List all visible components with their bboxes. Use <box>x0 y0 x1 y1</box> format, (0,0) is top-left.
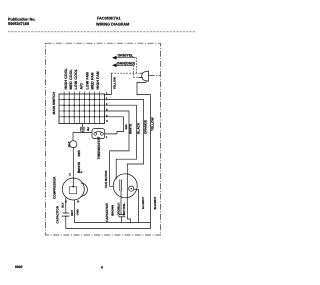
svg-text:GRN/YEL: GRN/YEL <box>118 54 135 58</box>
switch rotated mode labels <box>64 67 100 89</box>
svg-text:1: 1 <box>106 136 108 139</box>
header publication text <box>8 16 129 26</box>
wire overload to compressor C <box>72 147 74 187</box>
wire switch row4 to thermostat loop <box>105 117 124 134</box>
plug prongs <box>139 73 143 77</box>
svg-text:MED COOL: MED COOL <box>69 68 73 89</box>
svg-text:ORG: ORG <box>76 209 79 215</box>
svg-text:Publication No.: Publication No. <box>8 18 36 22</box>
svg-text:R: R <box>77 200 79 204</box>
svg-text:BLK: BLK <box>62 202 65 207</box>
svg-text:6: 6 <box>101 266 103 270</box>
svg-text:BLK: BLK <box>78 171 83 174</box>
power plug P1 <box>142 71 161 81</box>
fan motor M2 <box>113 174 137 198</box>
svg-text:ORANGE: ORANGE <box>143 120 147 134</box>
ground arrow GRN(GND) <box>112 61 136 67</box>
wire hot feed dashed from plug <box>111 72 138 74</box>
switch row lines <box>59 99 105 116</box>
svg-text:LOW FAN: LOW FAN <box>86 72 90 90</box>
svg-text:RED: RED <box>125 124 128 129</box>
svg-text:WIRING DIAGRAM: WIRING DIAGRAM <box>96 22 129 26</box>
svg-text:WHT/YEL: WHT/YEL <box>122 203 126 216</box>
svg-text:5995347169: 5995347169 <box>8 22 29 26</box>
overload protector OL <box>70 141 77 148</box>
wire switch row1 to stair <box>105 99 144 222</box>
labels below motor <box>111 203 127 216</box>
svg-text:C: C <box>106 120 108 123</box>
svg-text:LOW COOL: LOW COOL <box>74 68 78 89</box>
switch contact dots <box>63 99 100 125</box>
main switch S1 box <box>59 94 105 124</box>
svg-text:HIGH COOL: HIGH COOL <box>64 67 68 89</box>
svg-text:MED FAN: MED FAN <box>91 72 95 89</box>
switch column lines with stubs <box>64 92 99 124</box>
switch terminal labels <box>106 92 108 123</box>
svg-text:6920: 6920 <box>15 265 23 269</box>
svg-text:COMPRESSOR: COMPRESSOR <box>52 176 56 199</box>
svg-text:FAC053K7A1: FAC053K7A1 <box>97 16 121 20</box>
compressor M1 <box>62 178 87 200</box>
wire switch row2 to stair <box>105 105 137 179</box>
node C terminal dot <box>72 186 74 188</box>
wire trunk down right side <box>150 95 152 229</box>
wire hot feed drop to switch L <box>105 73 112 94</box>
svg-text:A/C: A/C <box>80 83 84 90</box>
svg-text:BLK/WHT: BLK/WHT <box>153 196 157 209</box>
svg-text:YELLOW: YELLOW <box>112 77 116 89</box>
svg-text:HIGH FAN: HIGH FAN <box>96 71 100 89</box>
wire compressor S to capacitor <box>65 198 67 214</box>
thermostat TH1 <box>92 129 105 139</box>
svg-text:WHITE: WHITE <box>129 124 133 134</box>
svg-text:THERMOSTAT: THERMOSTAT <box>97 136 101 160</box>
wire motor protector to right drop <box>134 189 139 222</box>
wire bottom common run <box>66 228 151 230</box>
capacitor C1 run <box>62 213 70 229</box>
header separator dashed line <box>8 31 196 33</box>
svg-text:CAPACITOR: CAPACITOR <box>105 202 109 221</box>
svg-text:C: C <box>69 173 72 177</box>
svg-text:MAIN SWITCH: MAIN SWITCH <box>52 92 56 115</box>
svg-text:15A: 15A <box>87 127 90 132</box>
wire thermostat left to overload <box>73 133 92 140</box>
wire prong dashes <box>134 77 139 79</box>
svg-text:BLACK: BLACK <box>136 122 140 134</box>
svg-text:BROWN: BROWN <box>111 205 115 216</box>
svg-text:OLP: OLP <box>67 141 71 147</box>
svg-text:RED: RED <box>77 149 81 156</box>
svg-text:WHITE: WHITE <box>77 162 81 172</box>
wire plug neutral S-bend to trunk <box>137 81 151 95</box>
wire compressor R down and right <box>74 200 150 223</box>
fuse box F1 below switch <box>81 127 84 131</box>
svg-text:ORG/BLK: ORG/BLK <box>117 203 121 216</box>
chassis dash-dot border <box>46 43 161 235</box>
ground arrow GRN/YEL <box>112 54 136 60</box>
svg-text:WHT: WHT <box>71 210 74 216</box>
svg-text:YELLOW: YELLOW <box>150 117 154 131</box>
wire switch row3 to stair <box>105 111 130 186</box>
wire ground dashed drops to plug <box>134 58 137 78</box>
svg-text:BLU/WHT: BLU/WHT <box>142 197 145 209</box>
wire color labels bundle <box>129 117 155 134</box>
svg-text:GRN(GND): GRN(GND) <box>117 61 136 65</box>
wire motor winding to fan capacitor <box>120 191 122 215</box>
capacitor C2 fan <box>118 215 125 223</box>
svg-text:CAPACITOR: CAPACITOR <box>56 205 60 223</box>
svg-text:FAN MOTOR: FAN MOTOR <box>104 170 108 188</box>
